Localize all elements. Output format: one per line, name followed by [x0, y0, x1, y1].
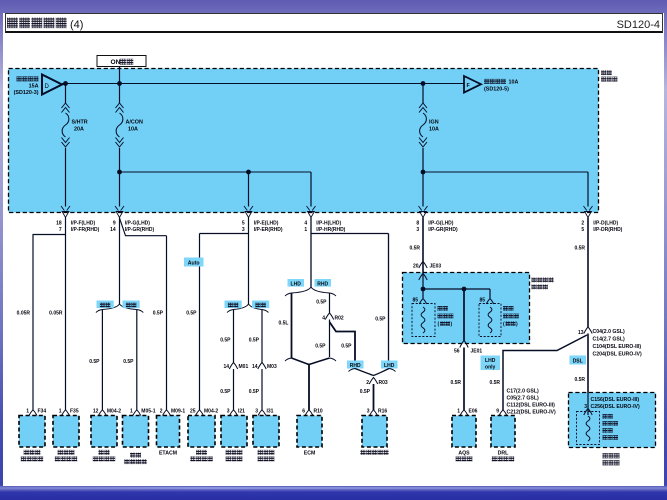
tag 手动: [123, 301, 140, 309]
svg-text:5: 5: [581, 227, 584, 233]
svg-text:RHD: RHD: [317, 281, 328, 287]
wire IGN to rail: [422, 148, 424, 172]
node sunroof merge: [355, 369, 374, 376]
fuse S/HTR 20A: [62, 84, 88, 148]
tag 自动: [97, 301, 114, 309]
wire branch to DRL module: [503, 335, 587, 410]
connector 1 F34 passenger seat heater switch: [19, 409, 46, 462]
pin 2/5 I/P-D(LHD): [581, 206, 622, 233]
svg-text:0.5P: 0.5P: [249, 389, 260, 395]
svg-text:JE03: JE03: [430, 264, 442, 270]
svg-text:0.05R: 0.05R: [17, 311, 31, 317]
wire to right relay: [489, 289, 491, 298]
node ECM merge: [292, 358, 310, 365]
svg-text:0.5P: 0.5P: [220, 338, 231, 344]
wire bus: [62, 83, 464, 85]
pin 9/14 I/P-G(LHD): [110, 206, 154, 233]
svg-text:12: 12: [93, 409, 99, 415]
svg-text:DSL: DSL: [573, 359, 583, 365]
svg-text:3: 3: [416, 227, 419, 233]
svg-text:JE01: JE01: [471, 349, 483, 355]
bottom band streak: [0, 487, 667, 489]
in-line connector 4 R02: [322, 313, 344, 322]
svg-text:0.5P: 0.5P: [220, 389, 231, 395]
in-line connector 20 JE03: [413, 262, 441, 270]
svg-text:R03: R03: [379, 380, 388, 386]
svg-text:0.5L: 0.5L: [278, 321, 288, 327]
wire A/CON rail to pin 9: [119, 172, 121, 207]
svg-text:15A: 15A: [29, 83, 39, 89]
svg-text:I/P-G(LHD): I/P-G(LHD): [428, 221, 454, 227]
headlamp relay high beam (85): [479, 298, 501, 337]
connector 2 M09-1 ETACM: [157, 409, 186, 457]
wire rail to pin 4: [310, 172, 312, 207]
wire 0.5P to sunroof control 3 R16: [360, 384, 374, 410]
svg-text:4: 4: [322, 316, 325, 322]
svg-text:I/P-GR(RHD): I/P-GR(RHD): [428, 227, 458, 233]
node bus-S/HTR junction: [63, 81, 68, 86]
wire rail to pin 2: [587, 172, 589, 207]
svg-text:9: 9: [113, 221, 116, 227]
wire 0.5P to blower relay I21: [220, 369, 233, 410]
connector 12 M04-2 A/C control module: [91, 409, 121, 462]
svg-text:C04(2.0 GSL): C04(2.0 GSL): [593, 329, 626, 335]
wire to ECM 6 R10: [308, 365, 310, 411]
tag LHD 2: [381, 361, 398, 370]
wire rail to pin 5: [248, 172, 250, 207]
svg-text:only: only: [485, 364, 495, 370]
node auto/manual split 2: [234, 304, 249, 310]
svg-text:0.5R: 0.5R: [489, 380, 500, 386]
svg-text:I31: I31: [267, 409, 274, 415]
wire rail right section: [423, 171, 588, 173]
wire 0.5P to blower relay I31: [249, 369, 262, 410]
svg-text:0.5P: 0.5P: [341, 344, 352, 350]
svg-text:DRL: DRL: [498, 451, 509, 457]
wire A/CON to rail: [119, 148, 121, 172]
svg-text:R10: R10: [314, 409, 323, 415]
connector 3 I31 blower relay: [253, 409, 279, 462]
diesel box label 柴油机接线盒: [603, 453, 620, 465]
label 燃油滤清器加热继电器: [603, 414, 619, 440]
svg-text:C104(DSL EURO-III): C104(DSL EURO-III): [593, 344, 642, 350]
svg-text:D: D: [45, 84, 50, 90]
svg-text:85: 85: [480, 298, 486, 304]
svg-text:(SD120-3): (SD120-3): [14, 90, 39, 96]
wire I/P-E drop: [248, 218, 250, 305]
diesel junction box 柴油机接线盒: [569, 393, 656, 448]
label 大灯继电器(远光): [503, 306, 519, 327]
svg-text:C212(DSL EURO-IV): C212(DSL EURO-IV): [507, 410, 556, 416]
wire I/P-G drop: [119, 218, 121, 305]
pin 8/3 I/P-G(LHD): [416, 206, 458, 233]
svg-text:3: 3: [255, 409, 258, 415]
connector 1 F35 driver seat heater switch: [53, 409, 79, 462]
in-line connector 14 M03: [252, 363, 277, 371]
wire branch to 25 M04-2: [200, 233, 249, 235]
svg-text:I/P-GR(RHD): I/P-GR(RHD): [125, 227, 155, 233]
wire 0.5P to A/C control module 25 M04-2: [186, 234, 199, 411]
svg-text:0.5P: 0.5P: [316, 300, 327, 306]
fuse A/CON 10A: [116, 84, 143, 148]
wire 0.5P to A/C control module 12 M04-2: [89, 310, 102, 411]
svg-text:8: 8: [416, 221, 419, 227]
wire 0.5P to in-line connector M01: [220, 310, 233, 363]
svg-text:3: 3: [584, 404, 587, 410]
svg-text:20A: 20A: [74, 127, 84, 133]
connector 1 E06 AQS sensor: [452, 409, 478, 462]
svg-text:(4): (4): [70, 19, 83, 31]
svg-text:3: 3: [242, 227, 245, 233]
tag 自动 2: [225, 301, 242, 309]
wire 0.5P R02 to ECM merge: [315, 320, 329, 358]
svg-text:S/HTR: S/HTR: [72, 120, 88, 126]
label 前后雾灯 10A (SD120-5): [484, 79, 519, 92]
node bus-A/CON junction: [117, 81, 122, 86]
svg-text:13: 13: [578, 330, 584, 336]
svg-text:C112(DSL EURO-III): C112(DSL EURO-III): [507, 403, 556, 409]
wire rail left section: [120, 171, 312, 173]
svg-text:2: 2: [581, 221, 584, 227]
fuse IGN 10A: [419, 84, 439, 148]
wire 0.5P R02 jog to RHD tag: [330, 322, 356, 361]
wire branch to F34: [33, 234, 66, 236]
svg-text:I21: I21: [238, 409, 245, 415]
svg-text:I/P-H(LHD): I/P-H(LHD): [316, 221, 341, 227]
svg-text:1: 1: [304, 227, 307, 233]
svg-text:2: 2: [366, 380, 369, 386]
svg-text:I/P-F(LHD): I/P-F(LHD): [71, 221, 96, 227]
pin entry into engine room box: [419, 274, 427, 281]
wire into fuel filter heater relay: [587, 393, 589, 416]
tag RHD 2: [347, 361, 364, 370]
svg-text:0.5R: 0.5R: [574, 377, 585, 383]
wire 0.5P to in-line connector M03: [249, 310, 262, 363]
svg-text:0.5R: 0.5R: [450, 380, 461, 386]
svg-text:C204(DSL EURO-IV): C204(DSL EURO-IV): [593, 352, 642, 358]
label C17/C05/C112/C212: [507, 389, 556, 416]
svg-text:R16: R16: [378, 409, 387, 415]
title bar: [5, 13, 663, 33]
engine room junction box 发动机舱接线盒: [403, 273, 530, 344]
svg-text:14: 14: [252, 364, 258, 370]
wire 0.5R I/P-G drop: [409, 218, 423, 273]
svg-text:ECM: ECM: [304, 451, 316, 457]
connector 3 I21 blower relay: [221, 409, 247, 462]
node IGN rail junction: [421, 170, 426, 175]
wire 0.5R I/P-D drop: [574, 218, 588, 328]
svg-text:C14(2.7 GSL): C14(2.7 GSL): [593, 337, 626, 343]
svg-text:IGN: IGN: [429, 120, 439, 126]
svg-text:7: 7: [59, 227, 62, 233]
svg-text:C156(DSL EURO-III): C156(DSL EURO-III): [591, 397, 640, 403]
svg-text:M09-1: M09-1: [171, 409, 185, 415]
svg-text:0.5P: 0.5P: [153, 311, 164, 317]
wire 0.05R to heater switch F35: [49, 235, 65, 411]
svg-text:ON: ON: [111, 59, 121, 66]
node engine box junction 1: [421, 287, 426, 292]
wire IGN rail to pin 8: [422, 172, 424, 207]
svg-text:R02: R02: [335, 316, 344, 322]
svg-text:10A: 10A: [429, 127, 439, 133]
wire 0.5P to A/C control module 1 M05-1: [123, 310, 137, 411]
svg-text:M03: M03: [267, 364, 277, 370]
label 大灯继电器(近光): [438, 306, 454, 327]
wire ON voltage feed: [119, 67, 121, 84]
pin 5/3 I/P-E(LHD): [242, 206, 283, 233]
connector 9 DRL control module: [491, 409, 515, 462]
wire engine box rail: [423, 288, 490, 290]
svg-text:Auto: Auto: [188, 261, 200, 267]
tag RHD: [315, 279, 332, 287]
in-line connector 13 C04/C14/C104/C204: [578, 327, 642, 358]
svg-text:0.5P: 0.5P: [249, 338, 260, 344]
svg-text:85: 85: [413, 298, 419, 304]
junction box label 室内接线盒: [601, 70, 617, 81]
svg-text:14: 14: [223, 364, 229, 370]
svg-text:M01: M01: [239, 364, 249, 370]
svg-text:0.5P: 0.5P: [186, 311, 197, 317]
label 3 C156/C256: [584, 397, 640, 410]
in-line connector 2 R03: [366, 378, 388, 387]
svg-text:1: 1: [130, 409, 133, 415]
title 室内接线盒 (4): [7, 18, 83, 31]
svg-text:ETACM: ETACM: [159, 451, 177, 457]
connector 1 M05-1 A/C control module: [123, 409, 156, 465]
svg-text:0.5P: 0.5P: [123, 359, 134, 365]
svg-text:5: 5: [242, 221, 245, 227]
svg-text:(SD120-5): (SD120-5): [484, 86, 509, 92]
svg-text:10A: 10A: [509, 80, 519, 86]
svg-text:I/P-DR(RHD): I/P-DR(RHD): [593, 227, 622, 233]
svg-text:18: 18: [56, 221, 62, 227]
connector 6 R10 ECM: [297, 409, 323, 457]
node bus-IGN junction: [421, 81, 426, 86]
connector 25 M04-2 A/C control module: [188, 409, 218, 462]
svg-text:I/P-ER(RHD): I/P-ER(RHD): [254, 227, 283, 233]
wire branch right: [311, 233, 389, 235]
svg-text:9: 9: [496, 409, 499, 415]
svg-text:25: 25: [190, 409, 196, 415]
svg-text:10A: 10A: [128, 127, 138, 133]
node LHD/RHD split: [292, 287, 312, 293]
tag LHD: [288, 279, 305, 287]
in-line connector 56 JE01: [454, 341, 482, 355]
label 后雨刮器 15A (SD120-3): [14, 76, 39, 95]
wire I/P-H drop: [310, 218, 312, 288]
svg-text:I/P-HR(RHD): I/P-HR(RHD): [316, 227, 345, 233]
svg-text:I/P-G(LHD): I/P-G(LHD): [125, 221, 151, 227]
svg-text:0.5P: 0.5P: [89, 359, 100, 365]
node rail I/P-E junction: [246, 170, 251, 175]
svg-text:E06: E06: [469, 409, 478, 415]
svg-text:3: 3: [367, 409, 370, 415]
tag Auto: [184, 258, 204, 267]
svg-text:0.5R: 0.5R: [574, 246, 585, 252]
svg-text:F34: F34: [38, 409, 47, 415]
wire branch to ETACM: [120, 218, 167, 236]
off-page connector triangle D (rear wiper feed): [42, 75, 62, 95]
wire S/HTR to pin 18: [65, 148, 67, 207]
off-page connector triangle F (front/rear fog lamp 10A): [464, 76, 481, 93]
wire JE01 exit: [463, 289, 465, 341]
wire 0.5R to diesel box: [574, 334, 588, 393]
svg-text:M05-1: M05-1: [141, 409, 155, 415]
pin 4/1 I/P-H(LHD): [304, 206, 345, 233]
svg-text:F35: F35: [70, 409, 79, 415]
svg-text:1: 1: [457, 409, 460, 415]
tag 手动 2: [252, 301, 269, 309]
headlamp relay low beam (85): [412, 298, 435, 337]
svg-text:I/P-D(LHD): I/P-D(LHD): [593, 221, 618, 227]
wire 0.5P RHD branch: [316, 293, 329, 313]
engine room box label 发动机舱接线盒: [532, 277, 554, 289]
wire inside engine box: [422, 273, 424, 299]
svg-text:C05(2.7 GSL): C05(2.7 GSL): [507, 396, 540, 402]
svg-text:1: 1: [59, 409, 62, 415]
wire I/P-F drop: [65, 218, 67, 235]
connector 3 R16 sunroof control: [360, 409, 388, 455]
svg-text:0.5P: 0.5P: [375, 317, 386, 323]
svg-text:AQS: AQS: [458, 451, 470, 457]
fuel filter heater relay: [577, 409, 600, 445]
svg-text:C17(2.0 GSL): C17(2.0 GSL): [507, 389, 540, 395]
svg-text:6: 6: [302, 409, 305, 415]
wire 0.5P right branch to LHD tag: [375, 234, 388, 361]
svg-text:I/P-FR(RHD): I/P-FR(RHD): [71, 227, 100, 233]
svg-text:C256(DSL EURO-IV): C256(DSL EURO-IV): [591, 404, 640, 410]
svg-text:SD120-4: SD120-4: [617, 19, 660, 31]
svg-text:I/P-E(LHD): I/P-E(LHD): [254, 221, 279, 227]
wire 0.5R to AQS sensor 1 E06: [450, 348, 464, 411]
svg-text:0.5P: 0.5P: [315, 344, 326, 350]
tag LHD only: [481, 356, 501, 371]
svg-text:A/CON: A/CON: [126, 120, 143, 126]
in-line connector 14 M01: [223, 363, 248, 371]
svg-text:M04-2: M04-2: [204, 409, 218, 415]
svg-text:0.5R: 0.5R: [409, 246, 420, 252]
svg-text:0.5P: 0.5P: [360, 389, 371, 395]
svg-text:4: 4: [304, 221, 307, 227]
tag DSL: [570, 356, 587, 365]
svg-text:2: 2: [160, 409, 163, 415]
junction box 室内接线盒 (cyan dashed box): [9, 69, 599, 213]
svg-text:1: 1: [26, 409, 29, 415]
pin 18/7 I/P-F(LHD): [56, 206, 100, 233]
svg-text:M04-2: M04-2: [107, 409, 121, 415]
svg-text:3: 3: [227, 409, 230, 415]
node auto/manual split: [102, 304, 119, 310]
node ON voltage label box: [97, 56, 146, 67]
svg-text:56: 56: [454, 349, 460, 355]
wire 0.05R to heater switch F34: [17, 235, 33, 411]
svg-text:LHD: LHD: [291, 281, 302, 287]
wire 0.5L LHD branch: [278, 293, 291, 358]
svg-text:LHD: LHD: [485, 358, 496, 364]
svg-text:14: 14: [110, 227, 116, 233]
node A/CON rail junction: [117, 170, 122, 175]
svg-text:0.05R: 0.05R: [49, 311, 63, 317]
svg-text:20: 20: [413, 264, 419, 270]
wire 0.5P to ETACM M09-1: [153, 236, 167, 410]
node engine box junction 2: [462, 287, 467, 292]
